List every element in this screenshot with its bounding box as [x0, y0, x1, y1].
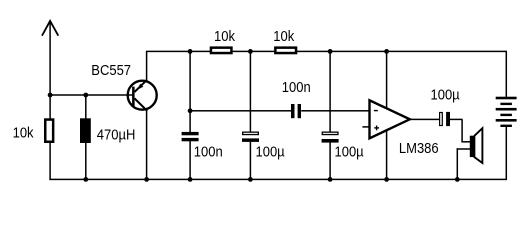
svg-text:100µ: 100µ: [431, 86, 460, 103]
svg-text:100n: 100n: [282, 78, 311, 95]
svg-text:10k: 10k: [13, 124, 34, 141]
svg-text:LM386: LM386: [399, 139, 439, 156]
svg-text:100µ: 100µ: [256, 143, 285, 160]
svg-text:BC557: BC557: [91, 61, 131, 78]
svg-text:10k: 10k: [214, 27, 235, 44]
svg-text:100n: 100n: [194, 143, 223, 160]
svg-text:470µH: 470µH: [97, 126, 136, 143]
svg-text:100µ: 100µ: [335, 143, 364, 160]
svg-text:10k: 10k: [273, 27, 294, 44]
